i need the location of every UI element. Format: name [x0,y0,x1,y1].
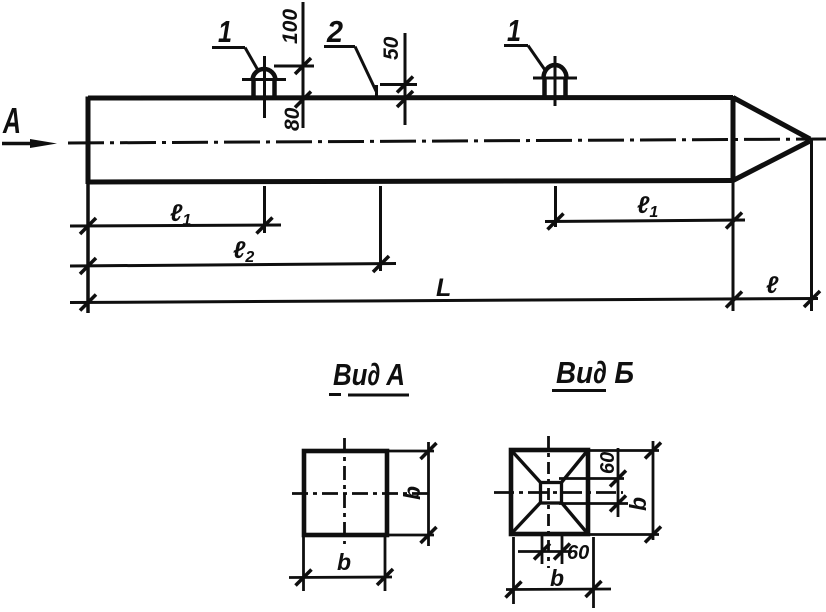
svg-text:100: 100 [279,9,302,44]
extension line loop2 [554,186,557,227]
callout 1 (right loop) [504,13,545,70]
View B dimension b bottom [506,537,612,608]
View A title underline [329,393,409,397]
svg-text:L: L [436,274,451,302]
View B dimension 60 bottom [518,536,572,564]
View B dim text 60 bottom [567,542,589,564]
View B vertical centerline [547,436,550,568]
callout 2 (chamfer mark) [324,14,377,98]
View B title [556,355,634,390]
dimension l1 left [70,218,281,235]
View B dimension 60 right [559,448,628,517]
svg-text:60: 60 [567,542,589,564]
svg-text:60: 60 [597,452,619,474]
dim text 100 [279,9,302,44]
view arrow A label [2,100,21,141]
svg-text:b: b [399,486,425,500]
extension line mark2 [379,186,382,271]
dimension 50 vertical line [380,33,417,125]
view arrow A [2,139,57,148]
extension line left edge [86,184,90,313]
View A horizontal centerline [292,492,429,495]
pile body outline [88,96,733,184]
lifting loop 1 (left) [253,69,276,100]
svg-text:b: b [337,549,351,575]
dim text l1 right [637,192,658,221]
dimension l2 [70,256,396,274]
pile tip [733,98,810,181]
svg-text:2: 2 [326,14,343,49]
svg-text:50: 50 [380,36,403,60]
svg-text:ℓ2: ℓ2 [233,237,254,266]
loop 2 crossbar [533,77,577,80]
View A dim text b right [399,486,425,500]
dim text l1 left [170,200,191,229]
View B square [511,450,588,534]
dim text 80 [281,107,304,131]
svg-text:Bu∂ A: Bu∂ A [333,357,405,392]
View B dim text 60 right [597,452,619,474]
svg-text:b: b [625,497,651,511]
View B diagonals [511,450,588,534]
dim text l (tip) [766,272,779,299]
loop 1 axis [263,56,266,118]
View A dimension b right [388,442,437,546]
extension line taper start [732,182,735,311]
callout 1 (left loop) [212,14,259,72]
View A dim text b bottom [337,549,351,575]
View B dim text b right [625,497,651,511]
loop 1 crossbar [242,78,286,81]
svg-text:A: A [2,100,21,141]
View B dimension b right [589,441,661,543]
dimension 100 / 80 vertical line [274,2,314,128]
loop 2 axis [554,56,557,106]
View B horizontal centerline [494,491,623,494]
View A title [333,357,405,392]
svg-text:80: 80 [281,107,304,131]
svg-text:b: b [550,565,564,591]
svg-text:1: 1 [218,14,232,49]
svg-text:ℓ1: ℓ1 [170,200,191,229]
pile centerline [68,139,826,143]
svg-text:ℓ: ℓ [766,272,779,299]
View A vertical centerline [343,438,346,544]
svg-text:1: 1 [507,13,521,48]
View A dimension b bottom [289,537,393,591]
dim text l2 [233,237,254,266]
lifting loop 2 (right) [544,65,567,98]
extension line loop1 [263,186,266,233]
extension line tip [810,140,813,311]
View A square [304,451,387,535]
svg-text:ℓ1: ℓ1 [637,192,658,221]
View B dim text b bottom [550,565,564,591]
dimension L and l row [70,291,820,311]
dim text 50 [380,36,403,60]
View B title underline [552,389,606,392]
dim text L [436,274,451,302]
svg-text:Bu∂ Б: Bu∂ Б [556,355,634,390]
dimension l1 right [545,213,745,230]
View B central square (pile tip flat) [541,483,562,504]
